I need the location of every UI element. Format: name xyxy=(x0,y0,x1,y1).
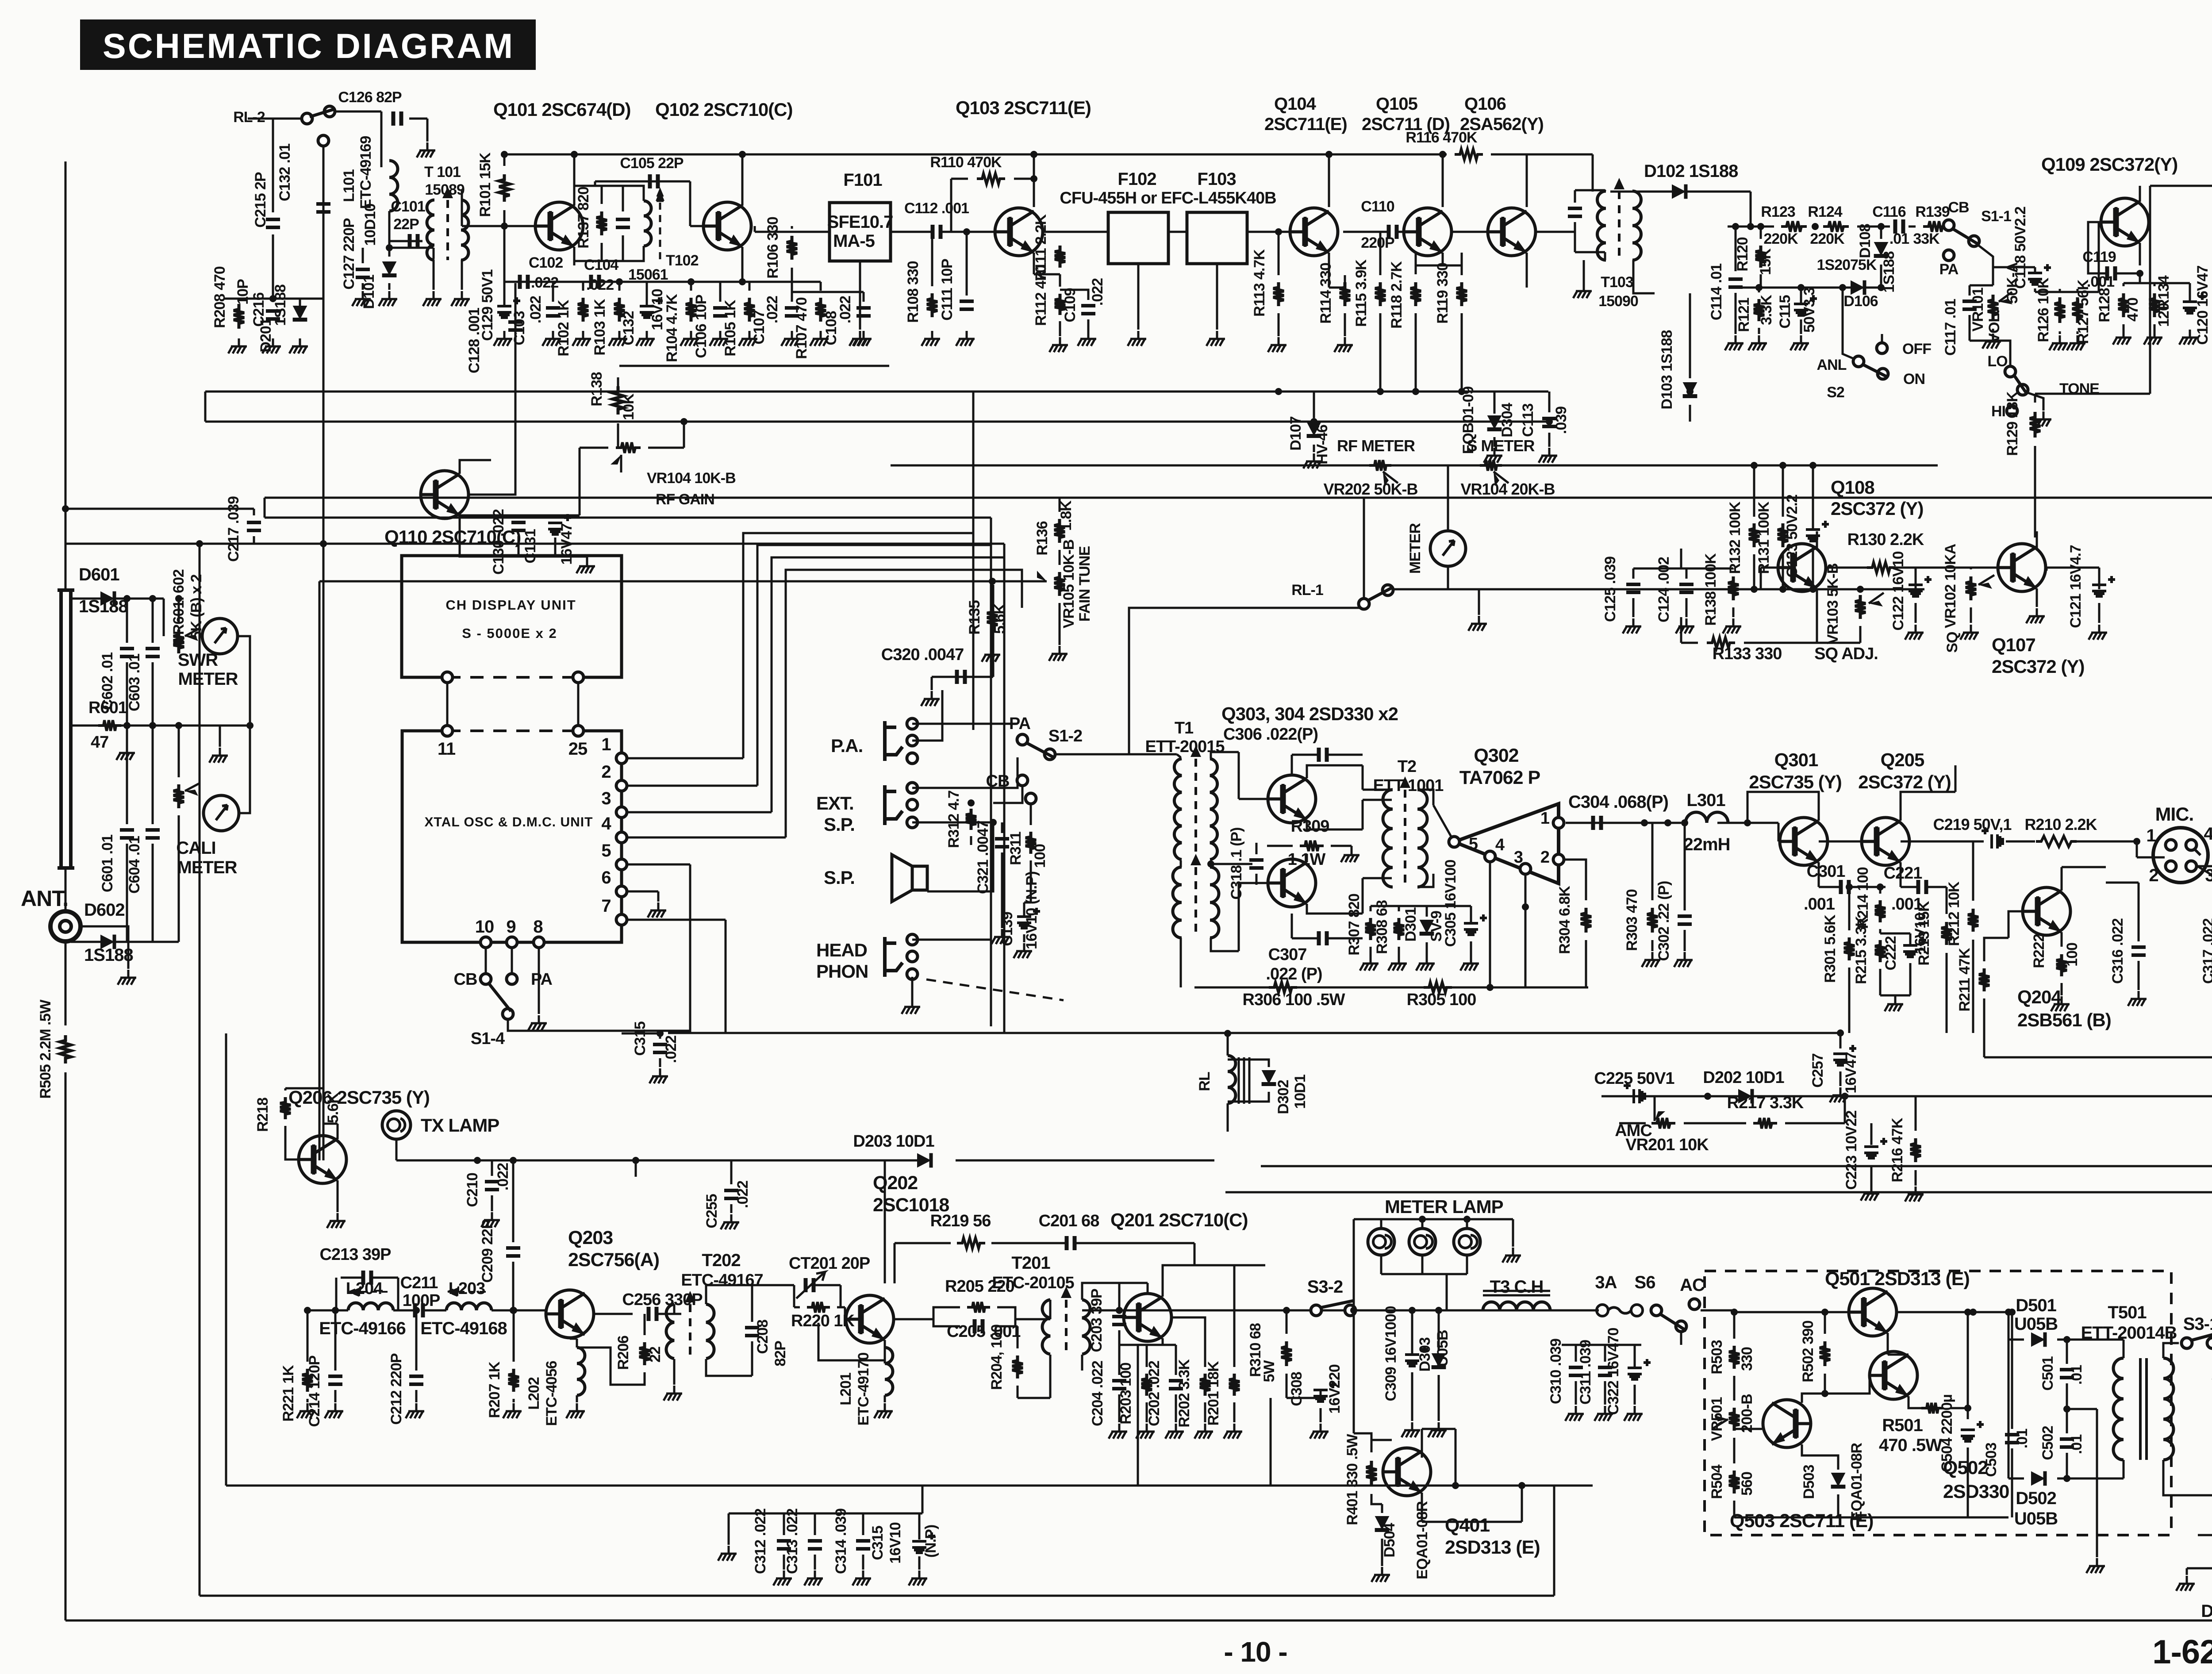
wiper VR601 xyxy=(185,628,200,636)
wire xyxy=(1351,846,1353,847)
capacitor C110 xyxy=(1389,225,1397,239)
wire xyxy=(1422,1428,1455,1430)
inductor T3 choke xyxy=(1483,1302,1550,1310)
svg-text:C202 .022: C202 .022 xyxy=(1146,1361,1163,1426)
wire Q109 collector xyxy=(2139,186,2141,202)
svg-text:R120: R120 xyxy=(1734,237,1751,271)
svg-text:Q101 2SC674(D): Q101 2SC674(D) xyxy=(493,99,631,120)
svg-text:10D10: 10D10 xyxy=(362,203,379,246)
junction xyxy=(386,244,393,251)
wire C217 long bus xyxy=(65,543,1004,545)
capacitor C113 xyxy=(1542,418,1556,426)
svg-text:10P: 10P xyxy=(234,279,251,305)
switch S3-1 b xyxy=(2207,1338,2212,1348)
svg-text:AC: AC xyxy=(1680,1275,1705,1295)
wire xyxy=(1574,190,1576,203)
wire xyxy=(1812,465,1814,529)
capacitor C107 xyxy=(785,308,799,316)
inductor L203 xyxy=(446,1303,492,1310)
wire detector long rail xyxy=(265,497,2212,499)
svg-text:50V3.3: 50V3.3 xyxy=(1801,288,1818,333)
wire D102 line xyxy=(1610,191,1751,193)
wire to Q501 xyxy=(1734,1311,1848,1313)
wire receiver emitter bus xyxy=(205,391,1548,393)
wire xyxy=(2139,273,2141,283)
wire xyxy=(951,178,968,180)
resistor R119 330 xyxy=(1456,282,1467,306)
wire xyxy=(690,282,692,291)
MIC pin 1 xyxy=(2166,840,2176,850)
wire xyxy=(895,1307,960,1319)
diode D304 EQB01-09 xyxy=(1487,415,1502,430)
svg-text:220K: 220K xyxy=(1763,230,1798,247)
resistor R113 4.7K xyxy=(1273,282,1284,306)
svg-text:D601: D601 xyxy=(79,565,119,584)
junction xyxy=(1809,462,1816,469)
wire xyxy=(1782,554,1784,589)
junction lower bus xyxy=(680,418,687,425)
wire xyxy=(1983,998,1985,1057)
capacitor C130 xyxy=(511,522,526,530)
capacitor C112 xyxy=(933,225,941,239)
capacitor C103 xyxy=(546,308,560,316)
wire xyxy=(1060,290,1088,300)
svg-text:C114 .01: C114 .01 xyxy=(1708,264,1725,320)
wire antenna feed left vertical xyxy=(65,161,67,590)
wire xyxy=(792,281,821,283)
wire lamp stub xyxy=(396,1139,398,1160)
potentiometer VR104 20K-B xyxy=(1480,460,1502,471)
wire xyxy=(1380,1256,1382,1274)
wire pin4 xyxy=(628,837,786,839)
capacitor tank T102 xyxy=(616,219,630,227)
wiper VR202 xyxy=(1383,472,1398,483)
wire xyxy=(1233,1265,1236,1367)
junction xyxy=(963,228,970,235)
ground C302 xyxy=(1674,952,1693,967)
junction xyxy=(1757,223,1764,230)
wire Q109 emitter xyxy=(2139,243,2141,265)
ground R138 xyxy=(1723,618,1741,634)
ground D504 xyxy=(1371,1567,1390,1582)
switch S6 lever xyxy=(1660,1314,1686,1331)
wire box bottom rail xyxy=(1734,1517,2008,1519)
svg-text:METER: METER xyxy=(178,669,238,689)
resistor R222 100 xyxy=(2056,954,2067,976)
svg-text:C501: C501 xyxy=(2039,1356,2056,1390)
wire T201 sec top xyxy=(1082,1283,1119,1300)
svg-text:R138 100K: R138 100K xyxy=(1702,553,1719,626)
svg-text:22P: 22P xyxy=(393,216,419,233)
ground Q110 cell xyxy=(576,558,595,573)
svg-text:1: 1 xyxy=(601,735,611,754)
svg-text:Q103 2SC711(E): Q103 2SC711(E) xyxy=(956,97,1091,118)
wire xyxy=(2096,1513,2098,1557)
wire xyxy=(1292,754,1318,756)
resistor R202 3.3K xyxy=(1200,1374,1210,1396)
wire xyxy=(1418,874,1433,887)
switch S1-4 pole xyxy=(503,1009,513,1019)
transistor Q107 2SC372 xyxy=(1998,544,2046,591)
wire to bus xyxy=(648,447,684,449)
inductor T501 primary xyxy=(2113,1358,2124,1460)
capacitor C602 xyxy=(120,649,134,657)
wire xyxy=(1035,1318,1050,1321)
wire xyxy=(1827,567,1867,569)
svg-text:Q302: Q302 xyxy=(1474,745,1518,766)
junction xyxy=(1751,462,1758,469)
terminal CH 11 top xyxy=(442,672,453,683)
capacitor C116 xyxy=(1895,219,1903,234)
electrolytic C225 xyxy=(1634,1089,1645,1103)
ground C106 xyxy=(710,331,728,346)
ground C103 xyxy=(542,331,561,346)
wire Q107 emitter xyxy=(2036,588,2038,607)
ground C309 xyxy=(1402,1422,1420,1437)
wire xyxy=(579,504,581,515)
wire PA jack xyxy=(912,723,1018,725)
ground VR101 xyxy=(1982,334,2001,349)
svg-text:R210 2.2K: R210 2.2K xyxy=(2024,815,2097,833)
wire Q301-Q205 link xyxy=(1819,841,1861,843)
svg-text:C604 .01: C604 .01 xyxy=(126,836,143,894)
wire xyxy=(1680,617,1682,643)
ground R128 xyxy=(2113,330,2131,345)
wire xyxy=(751,1285,753,1322)
svg-text:VR103 5K-B: VR103 5K-B xyxy=(1824,563,1841,644)
wire xyxy=(1651,823,1654,900)
wire xyxy=(931,677,933,690)
junction xyxy=(1522,903,1529,910)
terminal AC xyxy=(1689,1299,1700,1309)
wire T501 sec top xyxy=(2163,1343,2179,1358)
wire F101 out xyxy=(891,231,932,233)
ground R104 xyxy=(680,331,699,346)
wire xyxy=(2061,983,2063,995)
svg-text:C112 .001: C112 .001 xyxy=(904,200,969,217)
svg-text:C203 39P: C203 39P xyxy=(1088,1289,1105,1352)
svg-text:R311: R311 xyxy=(1007,832,1024,865)
wire xyxy=(1256,843,1258,854)
resistor R135 5.6K xyxy=(987,607,998,631)
svg-text:.001: .001 xyxy=(1804,895,1835,914)
wire xyxy=(1118,1345,1121,1375)
block CH DISPLAY dashed edge xyxy=(447,676,578,679)
switch S2 OFF contact xyxy=(1877,343,1887,353)
capacitor C126 xyxy=(393,111,401,126)
electrolytic C132 xyxy=(640,306,654,318)
wire T101 secondary down xyxy=(461,260,463,290)
svg-text:R401 330 .5W: R401 330 .5W xyxy=(1344,1433,1361,1525)
wire rail link xyxy=(264,498,266,518)
svg-text:.022: .022 xyxy=(837,296,854,323)
wire lower long rail xyxy=(200,1595,1554,1597)
wiper VR104 xyxy=(620,455,622,472)
capacitor C313 xyxy=(808,1541,822,1549)
wire T103 secondary down xyxy=(1632,260,1635,288)
svg-text:VR101: VR101 xyxy=(1970,288,1986,331)
diode D103 1S188 xyxy=(1683,382,1697,396)
wire rail to R116 xyxy=(1356,154,1447,156)
svg-text:LO: LO xyxy=(1987,353,2008,370)
svg-text:T102: T102 xyxy=(666,252,699,269)
wire xyxy=(751,1341,753,1376)
wire pin4 route xyxy=(786,570,1022,837)
switch RL-2 lever xyxy=(310,109,335,117)
wire pin1 xyxy=(628,757,743,760)
wire xyxy=(1651,940,1654,951)
wire T101 primary down xyxy=(433,260,435,290)
resistor R121 3.3K xyxy=(1754,299,1764,321)
wire Q108 collector xyxy=(1816,531,1818,549)
svg-text:R105 1K: R105 1K xyxy=(722,299,739,357)
wire xyxy=(2154,283,2156,286)
switch TONE LO contact xyxy=(2005,366,2016,377)
svg-text:RL-2: RL-2 xyxy=(233,109,265,126)
wire xyxy=(933,1319,960,1326)
junction lower bus xyxy=(1491,418,1498,425)
wire tank top xyxy=(574,186,644,201)
terminal XTAL pin 8 xyxy=(534,937,544,948)
wire xyxy=(1411,1310,1413,1354)
svg-text:1S2075K: 1S2075K xyxy=(1817,257,1877,273)
junction xyxy=(657,1030,664,1037)
junction xyxy=(1964,1309,1971,1316)
wire xyxy=(1689,405,1691,422)
wire xyxy=(2011,1312,2013,1429)
svg-text:C105 22P: C105 22P xyxy=(620,155,684,172)
capacitor C255 xyxy=(724,1190,738,1198)
resistor R127 56K xyxy=(2072,297,2083,323)
ground DC minus xyxy=(2176,1576,2195,1591)
transistor Q303 2SD330 xyxy=(1268,775,1316,823)
junction xyxy=(1518,1482,1525,1489)
wire xyxy=(163,599,165,636)
wire xyxy=(426,119,429,142)
wire ANL rail start xyxy=(1728,226,1774,228)
ground R107 xyxy=(810,331,829,346)
wire xyxy=(2077,289,2079,292)
wire xyxy=(362,283,364,290)
wire Q204 collector xyxy=(2061,867,2063,891)
wire xyxy=(1233,1402,1236,1422)
wire xyxy=(1879,929,1882,933)
junction emitter bus xyxy=(1412,388,1419,395)
ground R134 xyxy=(2144,330,2162,345)
switch S3-2 a xyxy=(1311,1305,1321,1316)
capacitor C301 xyxy=(1841,880,1849,894)
wire xyxy=(576,1395,578,1402)
transistor Q103 2SC711 xyxy=(995,208,1043,256)
wire xyxy=(1750,192,1752,227)
svg-text:R138: R138 xyxy=(588,372,605,406)
wire T202 sec top xyxy=(706,1285,734,1304)
wire receiver collector supply rail xyxy=(504,154,1356,156)
block XTAL dashed edge xyxy=(447,729,578,732)
wire F101 ground lead xyxy=(859,261,861,330)
potentiometer VR501 200-B xyxy=(1729,1408,1740,1431)
wire xyxy=(689,181,691,226)
wire Q206 base xyxy=(285,1126,298,1160)
inductor L201 xyxy=(885,1348,893,1395)
wire xyxy=(728,1513,730,1545)
wire pin1 route xyxy=(743,533,973,758)
resistor R504 560 xyxy=(1729,1471,1740,1494)
electrolytic C139 xyxy=(1017,917,1031,928)
svg-text:Q108: Q108 xyxy=(1831,477,1874,498)
wire Q203 collector xyxy=(595,1313,611,1315)
wire xyxy=(1946,887,1948,914)
resistor R207 1K xyxy=(508,1369,519,1392)
wire Q103 emitter xyxy=(1033,253,1035,274)
wire Q502 emitter xyxy=(1909,1396,1924,1408)
wire xyxy=(1227,1131,1229,1133)
wire xyxy=(1879,969,1882,995)
wire T2 sec xyxy=(1418,790,1433,805)
resistor R505 2.2M xyxy=(60,1035,71,1064)
wire from antenna feed xyxy=(65,508,254,510)
diode D203 10D1 xyxy=(917,1153,931,1168)
resistor R116 470K xyxy=(1455,149,1483,160)
capacitor C128 xyxy=(508,322,522,330)
svg-text:R103 1K: R103 1K xyxy=(591,299,608,356)
svg-text:.022: .022 xyxy=(663,1036,680,1063)
junction xyxy=(1463,1216,1471,1223)
transistor Q109 2SC372 xyxy=(2101,198,2149,246)
meter SWR xyxy=(202,618,238,654)
wire xyxy=(1870,1123,1873,1145)
jack sleeve lug xyxy=(907,753,918,764)
capacitor C209 xyxy=(506,1248,520,1256)
wire pin2 route xyxy=(757,545,991,786)
resistor R204 100 xyxy=(1012,1355,1023,1378)
wire Q303 base xyxy=(1239,798,1267,800)
svg-text:R114 330: R114 330 xyxy=(1317,263,1334,324)
wire Q202 collector xyxy=(884,1160,886,1283)
wire xyxy=(152,726,154,824)
wire T501 sec bottom xyxy=(2163,1460,2212,1495)
junction xyxy=(474,1157,481,1164)
wire xyxy=(1733,1312,1736,1339)
svg-text:R126 10K: R126 10K xyxy=(2035,277,2052,342)
wire rail link vertical xyxy=(1553,1486,1555,1596)
svg-text:VOL.: VOL. xyxy=(1986,310,2003,343)
svg-text:D203 10D1: D203 10D1 xyxy=(853,1132,934,1151)
ground D107 xyxy=(1303,453,1322,468)
wire xyxy=(1681,642,1698,644)
svg-text:R201 18K: R201 18K xyxy=(1205,1361,1222,1426)
wire xyxy=(991,638,994,646)
wire xyxy=(1426,942,1428,956)
wire xyxy=(152,662,154,726)
wire xyxy=(1733,1376,1736,1401)
wire RL-2 to C126 xyxy=(335,111,381,113)
wire xyxy=(1879,887,1882,894)
resistor R102 1K xyxy=(578,298,588,322)
ground TONE xyxy=(2033,411,2051,426)
svg-text:9: 9 xyxy=(506,917,515,937)
junction xyxy=(1837,1029,1844,1037)
svg-text:R215 3.3K: R215 3.3K xyxy=(1853,916,1870,984)
wire xyxy=(1370,947,1372,956)
resistor R307 820 xyxy=(1365,918,1376,940)
wire xyxy=(1228,1060,1269,1067)
svg-text:6: 6 xyxy=(601,868,611,887)
junction xyxy=(1821,1309,1828,1316)
junction xyxy=(739,151,746,158)
wire xyxy=(2189,283,2191,302)
svg-text:C104: C104 xyxy=(584,257,618,273)
jack ring lug xyxy=(907,799,918,810)
ground VR105 xyxy=(1049,646,1068,661)
terminal CH 25 top xyxy=(573,672,584,683)
transformer T202 xyxy=(666,1291,714,1359)
wire xyxy=(1356,1309,1394,1312)
svg-text:R601: R601 xyxy=(88,699,127,717)
wire Q106 to T103 xyxy=(1536,231,1575,233)
capacitor C132 input xyxy=(316,204,330,212)
svg-text:R101 15K: R101 15K xyxy=(477,152,494,217)
wire xyxy=(1881,334,1883,343)
switch TONE HI contact xyxy=(2007,406,2017,416)
svg-text:R501: R501 xyxy=(1882,1416,1923,1435)
inductor T102 winding xyxy=(644,201,651,246)
svg-text:R108 330: R108 330 xyxy=(905,261,922,323)
MIC pin 2 xyxy=(2166,861,2176,872)
wire xyxy=(1800,319,1802,334)
wire xyxy=(970,802,972,803)
electrolytic C122 xyxy=(1909,585,1923,596)
junction xyxy=(2008,1309,2016,1316)
terminal XTAL pin 9 xyxy=(507,937,517,948)
svg-text:C314 .039: C314 .039 xyxy=(833,1509,849,1574)
potentiometer VR101 VOL xyxy=(1988,295,1998,320)
wire xyxy=(1446,1274,1448,1310)
wire xyxy=(2034,394,2036,403)
wire xyxy=(1548,433,1551,447)
wire fine-tune bias rail xyxy=(319,580,1045,583)
wire xyxy=(1328,937,1363,940)
junction top rail xyxy=(1439,151,1446,158)
junction xyxy=(2063,1336,2070,1343)
resistor R401 330 xyxy=(1366,1461,1377,1486)
switch S1-4 CB xyxy=(480,974,491,984)
ground pin8 xyxy=(528,1015,547,1030)
resistor R137 820 xyxy=(596,211,607,235)
svg-text:C313 .022: C313 .022 xyxy=(784,1509,801,1574)
wire xyxy=(552,282,554,302)
wire xyxy=(503,154,506,166)
wire opamp out xyxy=(1566,822,1681,824)
svg-text:S.P.: S.P. xyxy=(824,814,855,835)
jack HEAD PHON xyxy=(885,937,902,977)
wire ANT shield xyxy=(81,926,128,969)
capacitor C204 xyxy=(1112,1381,1126,1389)
wire Q106 bottom xyxy=(1526,253,1528,288)
terminal XTAL pin 7 xyxy=(616,914,627,925)
wire xyxy=(1313,392,1315,418)
svg-text:C130 .022: C130 .022 xyxy=(490,509,507,575)
ground C305 xyxy=(1460,956,1479,971)
wire xyxy=(1023,934,1025,942)
wire bus link xyxy=(204,392,207,422)
svg-text:C132 .01: C132 .01 xyxy=(276,144,293,201)
wire xyxy=(791,282,793,302)
wire xyxy=(1194,1243,1196,1265)
svg-text:5: 5 xyxy=(601,841,611,860)
resistor R201 18K xyxy=(1229,1374,1240,1396)
wire L301 out xyxy=(1717,822,1778,824)
